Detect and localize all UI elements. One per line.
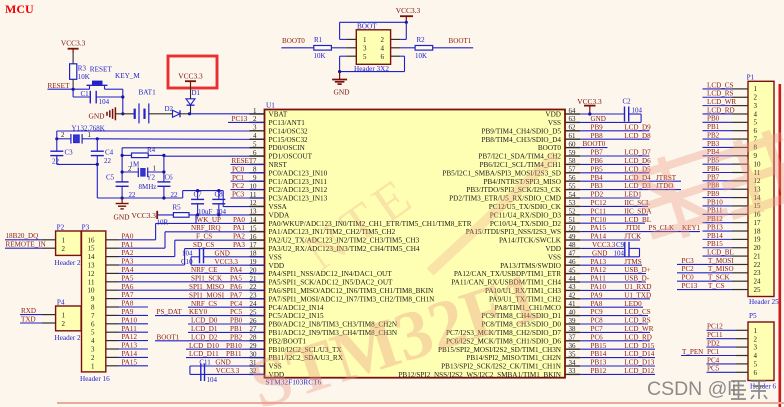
svg-text:JTMS: JTMS (624, 258, 641, 266)
wire/net labels pin 56 (580, 174, 681, 182)
svg-text:LCD_D14: LCD_D14 (624, 350, 654, 358)
svg-text:P5: P5 (749, 312, 757, 320)
svg-text:PS_DAT: PS_DAT (157, 308, 183, 316)
svg-text:3: 3 (363, 45, 367, 53)
svg-text:PC7: PC7 (591, 325, 604, 333)
svg-text:PA14: PA14 (591, 233, 607, 241)
svg-text:C4: C4 (105, 149, 114, 157)
svg-text:VDD: VDD (545, 111, 561, 119)
svg-text:PB0: PB0 (230, 317, 243, 325)
svg-text:PC2/ADC123_IN12: PC2/ADC123_IN12 (269, 186, 328, 194)
svg-text:LCD_D8: LCD_D8 (624, 132, 651, 140)
svg-text:PB10: PB10 (226, 342, 242, 350)
wire/net labels pin 30 (186, 350, 265, 358)
svg-text:VCC3.3: VCC3.3 (577, 97, 602, 106)
battery BAT1 (135, 89, 156, 124)
wire/net labels pin 55 (580, 182, 681, 190)
svg-text:21: 21 (754, 252, 762, 260)
svg-text:VBAT: VBAT (269, 111, 288, 119)
svg-text:PB8: PB8 (591, 132, 604, 140)
svg-text:1: 1 (754, 85, 758, 93)
wire crystal gnd drop (96, 164, 98, 198)
svg-text:PA0: PA0 (122, 232, 134, 240)
svg-text:PC3: PC3 (232, 191, 245, 199)
wire/net labels pin 44 (580, 275, 649, 283)
svg-text:5: 5 (754, 361, 758, 369)
svg-text:PC4/ADC12_IN14: PC4/ADC12_IN14 (269, 304, 325, 312)
svg-text:9: 9 (91, 295, 95, 303)
node C7 bottom (196, 213, 199, 216)
svg-text:USB_D-: USB_D- (624, 275, 649, 283)
svg-text:GND: GND (89, 111, 106, 120)
svg-text:T_CS: T_CS (708, 282, 725, 290)
wire VCC3.3 to D1 (190, 86, 192, 99)
svg-text:VSSA: VSSA (269, 203, 288, 211)
svg-text:PA5: PA5 (122, 274, 134, 282)
net label BOOT1 (449, 37, 472, 45)
svg-text:PA3: PA3 (233, 241, 245, 249)
svg-text:PB3: PB3 (707, 140, 720, 148)
svg-text:C11: C11 (199, 359, 211, 367)
wire RXD (20, 307, 56, 315)
svg-text:PC0/ADC123_IN10: PC0/ADC123_IN10 (269, 169, 328, 177)
wire pin 64 VDD (580, 112, 624, 115)
svg-text:PB1: PB1 (230, 325, 243, 333)
svg-text:P2: P2 (57, 224, 65, 232)
svg-text:PA0: PA0 (233, 216, 245, 224)
svg-text:T_MISO: T_MISO (708, 265, 734, 273)
svg-text:R1: R1 (314, 36, 323, 44)
node C8 bottom (217, 213, 220, 216)
svg-text:LED1: LED1 (624, 191, 642, 199)
wire Y2 pin1 (148, 171, 164, 173)
pin names right column (398, 111, 561, 379)
svg-text:PA8: PA8 (122, 300, 134, 308)
header P3 (Header 16) (80, 224, 110, 384)
node C7 top (196, 189, 199, 192)
svg-text:P1: P1 (747, 73, 755, 81)
wire WK_UP to pin 14 (156, 222, 265, 224)
svg-text:PC14/OSC32: PC14/OSC32 (269, 127, 309, 135)
wire RESET node down to C1 (73, 89, 90, 97)
svg-text:NRF_CS: NRF_CS (191, 300, 217, 308)
svg-text:PA6: PA6 (122, 283, 134, 291)
svg-text:PA14: PA14 (122, 350, 138, 358)
node Y2 left (121, 170, 124, 173)
svg-text:24: 24 (754, 277, 762, 285)
capacitor C3 (50, 139, 73, 166)
svg-text:LED0: LED0 (624, 300, 642, 308)
wire/net labels pin 22 (189, 283, 242, 291)
wire Y1 pin1 to node (82, 138, 98, 140)
power port VCC3.3 (battery diode) (178, 71, 203, 86)
svg-text:11: 11 (88, 278, 95, 286)
wire GND to battery (115, 113, 134, 115)
svg-text:PA5/SPI1_SCK/ADC12_IN5/DAC2_OU: PA5/SPI1_SCK/ADC12_IN5/DAC2_OUT (269, 279, 394, 287)
power port VCC3.3 (BOOT) (396, 6, 421, 24)
svg-text:REMOTE_IN: REMOTE_IN (6, 241, 46, 249)
svg-text:VCC3.3: VCC3.3 (132, 211, 157, 220)
wire/net labels pin 41 (580, 300, 643, 308)
wire/net labels pin 21 (191, 275, 242, 283)
svg-text:C6: C6 (165, 174, 174, 182)
wire/net labels pin 54 (580, 191, 642, 199)
capacitor C7 (191, 191, 212, 217)
svg-text:104: 104 (182, 249, 193, 257)
svg-text:104: 104 (207, 376, 218, 384)
svg-text:LCD_RS: LCD_RS (707, 90, 733, 98)
svg-text:LCD_D0: LCD_D0 (191, 317, 218, 325)
wire VSSA to pin 12 (223, 206, 264, 208)
svg-text:2: 2 (62, 320, 66, 328)
svg-text:9: 9 (754, 152, 758, 160)
wire/net labels pin 23 (189, 291, 242, 299)
wire C9 hook to pin 47 GND (580, 248, 639, 257)
wire switch to GND riser (110, 89, 123, 114)
wire/net labels pin 20 (191, 266, 242, 274)
wire Y1 pin2 to node (57, 138, 72, 140)
svg-text:PB14/SPI2_MISO/TIM1_CH2N: PB14/SPI2_MISO/TIM1_CH2N (466, 354, 561, 362)
svg-text:PC1: PC1 (707, 348, 720, 356)
wire TXD (20, 315, 56, 323)
svg-text:GND: GND (592, 249, 607, 257)
svg-text:PB13: PB13 (591, 359, 607, 367)
wire/net labels pin 62 (580, 123, 651, 131)
capacitor C6 (157, 174, 178, 200)
svg-text:22: 22 (104, 157, 112, 165)
header P5 (Header 6) (748, 312, 777, 391)
svg-text:GND: GND (215, 249, 230, 257)
wire OSC32 out to pin 4 (97, 138, 264, 141)
svg-text:PD2: PD2 (591, 191, 604, 199)
svg-text:PA15: PA15 (591, 224, 607, 232)
svg-text:LCD_RD: LCD_RD (624, 333, 652, 341)
wire C1 to GND riser (96, 96, 123, 98)
capacitor C11 (190, 359, 265, 384)
svg-text:Header 2: Header 2 (55, 334, 82, 342)
wire BOOT pin6 return (338, 56, 405, 73)
node Y1 right (96, 137, 99, 140)
svg-text:LCD_D9: LCD_D9 (624, 123, 651, 131)
svg-text:VDDA: VDDA (269, 211, 291, 219)
watermark diagonal STM32F1 (241, 258, 550, 407)
svg-text:Y2: Y2 (147, 174, 156, 182)
svg-text:PD2: PD2 (707, 340, 720, 348)
svg-text:PA9: PA9 (591, 291, 603, 299)
svg-text:PB5: PB5 (591, 165, 604, 173)
svg-text:PB9/TIM4_CH4/SDIO_D5: PB9/TIM4_CH4/SDIO_D5 (482, 127, 562, 135)
svg-text:GND: GND (114, 213, 131, 222)
wire/net labels pin 58 (580, 157, 651, 165)
svg-text:PA12: PA12 (591, 266, 607, 274)
header P2 (55, 224, 82, 268)
svg-text:22: 22 (754, 261, 762, 269)
svg-text:LCD_D7: LCD_D7 (624, 149, 651, 157)
node RESET junction (72, 88, 75, 91)
svg-text:5: 5 (754, 119, 758, 127)
svg-text:Header 16: Header 16 (80, 375, 110, 383)
wire/net labels pin 57 (580, 165, 651, 173)
sheet border right (778, 84, 781, 407)
svg-text:PC12: PC12 (591, 199, 607, 207)
svg-text:BOOT0: BOOT0 (583, 140, 606, 148)
header P1 pin numbers (754, 85, 762, 294)
ground (crystal) (114, 196, 131, 221)
svg-text:LCD_D10: LCD_D10 (189, 342, 219, 350)
ground (battery rail) (89, 107, 116, 120)
svg-text:2: 2 (61, 132, 65, 139)
node Y1 left (55, 137, 58, 140)
svg-text:PA14/JTCK/SWCLK: PA14/JTCK/SWCLK (499, 237, 562, 245)
svg-text:PA2: PA2 (233, 233, 245, 241)
pin names left column (269, 111, 472, 379)
svg-text:5: 5 (91, 329, 95, 337)
svg-text:13: 13 (88, 262, 96, 270)
svg-text:104: 104 (632, 107, 643, 115)
resistor R1 (314, 36, 357, 60)
svg-text:LCD_CS: LCD_CS (624, 308, 650, 316)
svg-text:LCD_D13: LCD_D13 (624, 359, 654, 367)
wire SD_CS to pin 17 (185, 249, 265, 265)
wire/net labels pin 46 (580, 258, 642, 266)
svg-text:PC1: PC1 (232, 174, 245, 182)
node C8 top (217, 189, 220, 192)
wire/net labels pin 59 (580, 149, 651, 157)
svg-text:10K: 10K (415, 52, 427, 60)
svg-text:VSS: VSS (548, 119, 561, 127)
svg-text:LCD_RS: LCD_RS (624, 317, 650, 325)
wire/net labels pin 14 (197, 216, 246, 224)
svg-text:PC9: PC9 (591, 308, 604, 316)
wire BOOT0 (281, 47, 313, 49)
svg-text:U1_RXD: U1_RXD (624, 283, 651, 291)
svg-text:LCD_WR: LCD_WR (707, 98, 736, 106)
wire C2 hook to pin 63 GND (580, 114, 641, 123)
svg-text:1: 1 (363, 36, 367, 44)
svg-text:2: 2 (754, 94, 758, 102)
svg-text:BAT1: BAT1 (139, 89, 157, 97)
svg-text:PB10: PB10 (707, 198, 723, 206)
svg-text:T_SCK: T_SCK (708, 274, 731, 282)
svg-text:LCD_D1: LCD_D1 (191, 325, 218, 333)
svg-text:LCD_D2: LCD_D2 (191, 333, 218, 341)
svg-text:PA2: PA2 (122, 249, 134, 257)
svg-text:6: 6 (754, 369, 758, 377)
svg-text:LCD_RD: LCD_RD (707, 106, 735, 114)
svg-text:PC5/ADC12_IN15: PC5/ADC12_IN15 (269, 312, 325, 320)
svg-text:PA1: PA1 (122, 241, 134, 249)
svg-text:C3: C3 (65, 149, 74, 157)
wire riser P3 PA0 (155, 223, 157, 239)
svg-text:PB15: PB15 (591, 342, 607, 350)
svg-text:3: 3 (754, 102, 758, 110)
svg-text:104: 104 (614, 249, 625, 257)
wire/net labels pin 27 (188, 325, 265, 333)
wire BOOT pin2 riser (391, 22, 407, 39)
svg-text:VSS: VSS (269, 253, 282, 261)
svg-text:PB6: PB6 (591, 157, 604, 165)
wire/net labels pin 2 (228, 115, 265, 123)
svg-text:VCC3.3: VCC3.3 (592, 241, 616, 249)
svg-text:R3: R3 (78, 65, 87, 73)
wire gnd rail (crystal) (97, 191, 223, 207)
svg-text:PC13: PC13 (682, 282, 698, 290)
wire/net labels pin 11 (231, 191, 265, 199)
svg-text:C5: C5 (106, 174, 115, 182)
svg-text:GND: GND (334, 88, 351, 97)
svg-text:BOOT: BOOT (357, 23, 377, 31)
svg-text:PC4: PC4 (707, 356, 720, 364)
wire Y2 pin2 (122, 171, 138, 173)
svg-text:GND: GND (591, 115, 606, 123)
svg-text:8: 8 (91, 304, 95, 312)
svg-text:Header 25: Header 25 (749, 298, 779, 306)
svg-text:KEY0: KEY0 (189, 308, 208, 316)
svg-text:17: 17 (754, 219, 762, 227)
svg-text:PC6: PC6 (591, 333, 604, 341)
wire/net labels pin 8 (231, 165, 265, 173)
svg-text:VCC3.3: VCC3.3 (178, 71, 203, 80)
svg-text:PA12: PA12 (122, 333, 138, 341)
wire/net labels pin 53 (580, 199, 650, 207)
svg-text:6: 6 (381, 53, 385, 61)
IC U1 STM32F103RCT6 body (265, 102, 566, 387)
svg-text:BOOT0: BOOT0 (282, 37, 305, 45)
svg-text:PA6/SPI1_MISO/ADC12_IN6/TIM3_C: PA6/SPI1_MISO/ADC12_IN6/TIM3_CH1/TIM8_BK… (269, 287, 434, 295)
svg-text:3: 3 (91, 346, 95, 354)
svg-text:4: 4 (381, 45, 385, 53)
svg-text:1: 1 (62, 237, 66, 245)
svg-text:LCD_CS: LCD_CS (707, 81, 733, 89)
svg-text:18B20_DQ: 18B20_DQ (6, 232, 39, 240)
wire/net labels pin 36 (580, 342, 655, 350)
svg-text:PC15/OSC32: PC15/OSC32 (269, 136, 309, 144)
svg-text:Header 2: Header 2 (55, 259, 82, 267)
net label BOOT0 (282, 37, 305, 45)
watermark diagonal fragment 2 (294, 165, 427, 282)
node switch/C1 to battery rail junction (121, 112, 124, 115)
wire/net labels pin 49 (580, 233, 642, 241)
svg-text:PA7: PA7 (122, 291, 134, 299)
svg-text:U1: U1 (266, 102, 275, 110)
svg-text:PC3: PC3 (682, 257, 695, 265)
watermark diagonal stroke (430, 155, 556, 272)
svg-text:PC0: PC0 (232, 165, 245, 173)
svg-text:PB4: PB4 (591, 174, 604, 182)
svg-text:PB14: PB14 (707, 232, 723, 240)
wire/net labels pin 9 (231, 174, 265, 182)
svg-text:PB7: PB7 (591, 149, 604, 157)
svg-text:PC5: PC5 (230, 308, 243, 316)
svg-text:22: 22 (171, 191, 179, 199)
wire/net labels pin 60 (580, 140, 607, 148)
header P1 wires 22-25 (touch SPI) (677, 257, 748, 290)
svg-text:PB0: PB0 (707, 115, 720, 123)
wire C3-C4 common (57, 163, 98, 165)
svg-text:PA11: PA11 (122, 325, 138, 333)
svg-text:7: 7 (91, 312, 95, 320)
svg-text:PC13/ANT1: PC13/ANT1 (269, 119, 306, 127)
wire BOOT pin1 riser to VCC (340, 22, 407, 39)
svg-text:VDD: VDD (269, 262, 285, 270)
wire/net labels pin 51 (580, 216, 651, 224)
capacitor C9 (580, 241, 629, 257)
svg-text:2: 2 (754, 335, 758, 343)
wire WK_UP jog (195, 215, 197, 224)
svg-text:D1: D1 (192, 89, 201, 97)
wire/net labels pin 26 (188, 317, 265, 325)
svg-text:PA8: PA8 (591, 300, 603, 308)
wire/net labels pin 35 (580, 350, 655, 358)
svg-text:LCD_D11: LCD_D11 (189, 350, 219, 358)
svg-text:PB15: PB15 (707, 240, 723, 248)
svg-text:NRST: NRST (269, 161, 288, 169)
svg-text:PA15: PA15 (122, 358, 138, 366)
svg-text:PB3: PB3 (591, 182, 604, 190)
watermark CSDN (647, 378, 767, 400)
node C4 bottom (96, 163, 99, 166)
capacitor C5 (106, 174, 136, 200)
svg-text:PB8/TIM4_CH3/SDIO_D4: PB8/TIM4_CH3/SDIO_D4 (482, 136, 562, 144)
svg-text:PB2: PB2 (707, 131, 720, 139)
svg-text:PB13/SPI2_SCK/I2S2_CK/TIM1_CH1: PB13/SPI2_SCK/I2S2_CK/TIM1_CH1N (441, 363, 562, 371)
svg-text:VCC3.3: VCC3.3 (396, 6, 421, 15)
power port VCC3.3 (R5) (132, 211, 158, 220)
svg-text:JTCK: JTCK (624, 233, 642, 241)
wire/net labels pin 40 (580, 308, 650, 316)
svg-text:NRF_IRQ: NRF_IRQ (191, 224, 221, 232)
diode D1 (186, 89, 201, 114)
wire/net labels pin 45 (580, 266, 650, 274)
svg-text:C9: C9 (616, 241, 625, 249)
wire BOOT pin4 to R2 (391, 47, 416, 49)
svg-text:4: 4 (91, 337, 95, 345)
svg-text:P3: P3 (82, 224, 90, 232)
svg-text:R5: R5 (173, 204, 182, 212)
capacitor C2 (623, 98, 643, 122)
svg-text:PB9: PB9 (591, 123, 604, 131)
svg-text:PD1/OSCOUT: PD1/OSCOUT (269, 153, 313, 161)
diode D2 (165, 105, 181, 117)
svg-text:PB13: PB13 (707, 223, 723, 231)
wire/net labels pin 25 (155, 308, 265, 316)
wire/net labels pin 50 (580, 224, 700, 232)
node VBAT junction (188, 112, 191, 115)
svg-text:JTDI: JTDI (626, 224, 641, 232)
svg-text:PB9: PB9 (707, 190, 720, 198)
header P4 (55, 299, 82, 343)
svg-text:RESET: RESET (90, 66, 113, 74)
wire/net labels pin 16 (196, 233, 245, 241)
wire/net labels pin 42 (580, 291, 651, 299)
svg-text:PC10/U4_TX/SDIO_D2: PC10/U4_TX/SDIO_D2 (490, 220, 561, 228)
svg-text:LCD_D6: LCD_D6 (624, 157, 651, 165)
svg-text:15: 15 (88, 245, 96, 253)
wire/net labels pin 37 (580, 333, 652, 341)
capacitor C1 (81, 90, 110, 106)
svg-text:PB11: PB11 (226, 350, 242, 358)
svg-text:BOOT0: BOOT0 (538, 144, 562, 152)
svg-text:BOOT1: BOOT1 (449, 37, 472, 45)
svg-text:23: 23 (754, 269, 762, 277)
svg-text:5: 5 (363, 53, 367, 61)
wire BOOT pin5 to GND (340, 56, 357, 71)
svg-text:14: 14 (88, 253, 96, 261)
wire/net labels pin 33 (580, 367, 655, 375)
svg-text:PA13: PA13 (591, 258, 607, 266)
ground (BOOT) (332, 72, 350, 97)
svg-text:PC5: PC5 (707, 365, 720, 373)
